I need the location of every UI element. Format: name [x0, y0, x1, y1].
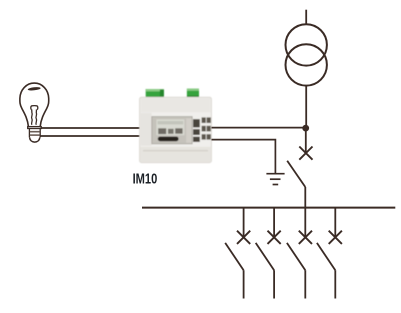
feeder 4 contact X	[329, 231, 342, 244]
feeder 2 tail	[273, 270, 275, 298]
feeder 2 switch blade	[256, 243, 274, 270]
feeder 4 tail	[334, 270, 336, 298]
feeder 2 contact X	[268, 231, 281, 244]
feeder 1 stub	[243, 208, 245, 238]
feeder 4 stub	[334, 208, 336, 238]
wire switch to busbar and feeder 3 contact	[304, 187, 306, 237]
feeder 3 tail	[304, 270, 306, 298]
wire transformer top stub	[305, 10, 307, 25]
switch blade main	[287, 161, 305, 187]
lamp L1	[20, 83, 49, 142]
wire meter to node	[212, 127, 306, 129]
wire meter to ground	[212, 140, 276, 174]
ground	[266, 174, 284, 185]
node A junction dot	[302, 125, 309, 132]
feeder 1 tail	[243, 270, 245, 298]
feeder 1 switch blade	[225, 243, 243, 270]
feeder 1 contact X	[237, 231, 250, 244]
wire node to contact	[305, 128, 307, 153]
wire lamp to meter bottom	[40, 135, 140, 137]
svg-text:IM10: IM10	[133, 170, 158, 187]
busbar	[142, 207, 395, 209]
feeder 4 switch blade	[317, 243, 335, 270]
meter IM10	[140, 89, 212, 163]
transformer T1	[286, 24, 327, 85]
feeder 3 contact X	[299, 231, 312, 244]
wire lamp to meter top	[41, 127, 140, 129]
contact X main	[299, 147, 312, 160]
feeder 2 stub	[273, 208, 275, 238]
wire transformer to node	[305, 86, 307, 128]
feeder 3 switch blade	[287, 243, 305, 270]
